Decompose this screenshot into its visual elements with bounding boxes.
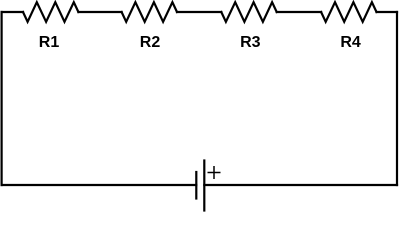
resistor R1 [23, 2, 78, 22]
svg-text:R2: R2 [140, 34, 161, 51]
wire right vertical [396, 12, 398, 185]
battery plate short (-) [195, 172, 197, 199]
wire top segment D [277, 11, 321, 13]
resistor R3 [221, 2, 276, 22]
wire bottom right [204, 184, 397, 186]
wire left vertical [1, 12, 3, 185]
battery plate long (+) [203, 161, 205, 211]
wire top segment E [377, 11, 398, 13]
svg-text:R1: R1 [39, 34, 60, 51]
wire top segment C [177, 11, 221, 13]
wire top segment A [2, 11, 23, 13]
svg-text:R4: R4 [340, 34, 361, 51]
resistor R4 [321, 2, 376, 22]
resistor R2 [122, 2, 177, 22]
plus sign [208, 172, 221, 174]
wire bottom left [2, 184, 197, 186]
wire top segment B [78, 11, 121, 13]
svg-text:R3: R3 [240, 34, 261, 51]
